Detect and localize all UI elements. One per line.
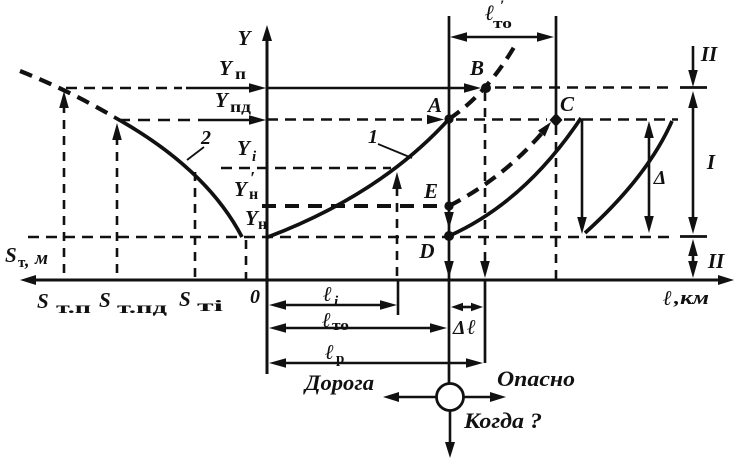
Yn level tick at dimension line	[680, 235, 707, 238]
vertical line through C, solid above dashed below	[555, 16, 558, 280]
Yp level line, dashed left part	[66, 87, 182, 90]
svg-text:Дорога: Дорога	[303, 370, 374, 395]
point E	[444, 201, 453, 210]
Ypd level line, dashed left part	[118, 119, 190, 122]
S_t.pd vertical dashed line with up arrow	[112, 123, 122, 280]
II upper dimension arrow	[688, 46, 698, 87]
Yn level long dashed line	[28, 236, 676, 239]
svg-text:C: C	[560, 92, 575, 116]
svg-text:II: II	[707, 249, 725, 273]
svg-text:Δ: Δ	[653, 167, 667, 189]
arrow right to Opasno	[464, 392, 506, 402]
svg-text:B: B	[469, 56, 484, 80]
l'to dimension double arrow	[450, 32, 554, 42]
svg-text:пд: пд	[230, 99, 251, 116]
point D	[444, 231, 454, 241]
svg-text:′: ′	[250, 168, 255, 188]
l_i right boundary tick	[397, 281, 400, 315]
point B	[481, 83, 491, 93]
arrow from E down to D	[444, 212, 454, 229]
Yn' heavy dashed level line to point E	[262, 204, 445, 208]
l_i vertical dashed line with up arrow to curve 1	[392, 172, 402, 280]
svg-text:,км: ,км	[673, 288, 709, 309]
svg-text:н: н	[249, 186, 258, 203]
svg-text:ℓ: ℓ	[323, 282, 332, 306]
A level dashed line right of C	[564, 118, 678, 121]
Yp/B level dashed line right of B	[495, 86, 670, 89]
svg-text:т.пд: т.пд	[117, 300, 167, 317]
svg-text:то: то	[332, 318, 349, 334]
vertical drop arrow of sawtooth curve	[577, 119, 587, 234]
svg-text:S: S	[179, 287, 191, 311]
dashed curve through A and B (prognosis)	[449, 42, 517, 119]
pointer line for label 2	[187, 147, 204, 160]
point A	[444, 114, 453, 123]
Yp level solid line from axis to point B	[267, 83, 481, 93]
S_ti vertical dashed line	[194, 172, 197, 280]
Yi level dashed line	[221, 167, 391, 170]
vertical dashed line below end of curve 2	[245, 240, 248, 280]
svg-text:I: I	[706, 150, 716, 174]
Delta-l dimension double arrow	[451, 303, 483, 311]
svg-text:2: 2	[200, 127, 211, 149]
svg-text:ℓ: ℓ	[325, 340, 334, 364]
svg-text:тi: тi	[197, 298, 224, 315]
svg-text:,: ,	[24, 250, 30, 270]
II lower dimension double arrow	[688, 239, 698, 278]
svg-text:ℓ: ℓ	[663, 286, 672, 310]
Yp level tick at dimension line	[680, 86, 707, 89]
curve 3 (next period curve)	[585, 121, 672, 233]
curve 1 (wear curve, rising)	[268, 119, 449, 237]
svg-text:Y: Y	[234, 177, 249, 201]
l_i dimension double arrow	[269, 300, 397, 310]
svg-text:Когда ?: Когда ?	[463, 408, 542, 433]
svg-text:1: 1	[368, 126, 378, 148]
svg-text:р: р	[336, 351, 344, 367]
Delta dimension double arrow	[644, 121, 654, 233]
svg-text:A: A	[426, 93, 442, 117]
S_t.p vertical dashed line with up arrow	[59, 91, 69, 280]
A level dashed line from A to C	[456, 118, 547, 121]
I dimension double arrow	[688, 91, 698, 234]
svg-text:′: ′	[500, 0, 504, 14]
vertical dashed line below B with arrow at axis	[480, 92, 490, 363]
dashed curve from E to C with arrow	[449, 127, 547, 206]
svg-text:ℓ: ℓ	[467, 315, 476, 339]
svg-text:то: то	[493, 16, 512, 32]
svg-text:E: E	[423, 179, 438, 203]
svg-text:н: н	[258, 216, 267, 233]
arrow down to Kogda	[445, 411, 455, 458]
X axis (abscissa, l km)	[20, 275, 734, 285]
svg-text:Опасно: Опасно	[497, 366, 575, 391]
svg-text:ℓ: ℓ	[322, 308, 331, 332]
svg-text:0: 0	[250, 286, 260, 308]
svg-text:S: S	[5, 243, 17, 267]
svg-text:м: м	[34, 248, 48, 269]
pointer line for label 1	[378, 144, 412, 158]
l_to dimension double arrow	[269, 323, 447, 333]
svg-text:Y: Y	[238, 26, 253, 50]
Ypd level tick arrow into Y axis	[198, 115, 266, 125]
svg-text:Y: Y	[219, 56, 234, 80]
l_p dimension double arrow	[269, 358, 483, 368]
Y axis (ordinate, Y)	[262, 25, 272, 374]
svg-text:Y: Y	[237, 136, 252, 160]
curve 2 dashed extrapolation	[20, 71, 114, 117]
svg-text:Δ: Δ	[452, 317, 466, 339]
svg-text:S: S	[99, 288, 111, 312]
svg-text:S: S	[37, 289, 49, 313]
svg-text:D: D	[418, 239, 434, 263]
Ypd level dashed line from axis with arrow at point A	[267, 115, 444, 125]
arrow left to Doroga	[383, 392, 436, 402]
decision circle node	[437, 384, 464, 411]
svg-text:т.п: т.п	[56, 300, 91, 317]
point C (diamond)	[550, 113, 563, 127]
curve 2 (wear curve, falling)	[114, 117, 242, 237]
Yp level tick arrow into Y axis	[186, 83, 266, 93]
svg-text:Y: Y	[215, 88, 230, 112]
svg-text:п: п	[235, 66, 246, 83]
sawtooth curve from D	[449, 118, 581, 236]
vertical solid line through A, E, D (repair section)	[444, 16, 454, 383]
svg-text:II: II	[700, 42, 718, 66]
